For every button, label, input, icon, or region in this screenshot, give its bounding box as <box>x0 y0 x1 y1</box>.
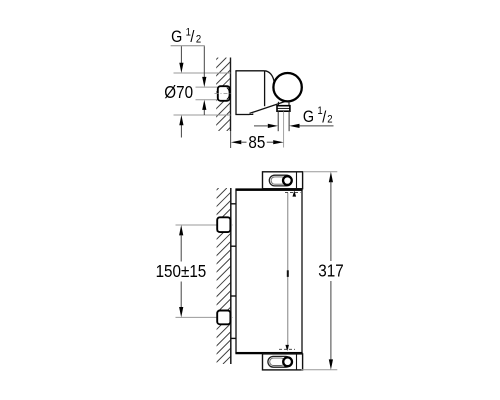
svg-text:G: G <box>171 28 182 46</box>
step under body <box>250 113 253 114</box>
outlet neck <box>277 102 279 106</box>
wall strip tick 2 <box>231 245 236 247</box>
dimension line with arrow (G1/2 leader left, down to Ø70 top ext) <box>179 46 183 73</box>
escutcheon front face <box>235 71 237 115</box>
slanted bottom of holder <box>250 101 288 114</box>
body bottom thick edge <box>235 352 302 354</box>
wall face line (bottom figure) <box>230 188 232 364</box>
bottom block (handle end) <box>263 354 303 370</box>
dimension 150±15 <box>156 225 207 317</box>
top block (handle end) <box>263 172 303 189</box>
inlet nut (top figure) <box>215 86 233 101</box>
svg-text:85: 85 <box>248 133 265 152</box>
body top thick edge <box>235 188 302 190</box>
wall strip tick 3 <box>231 295 236 297</box>
dimension arrow (outlet G1/2 right) with leader to label <box>289 124 333 128</box>
upper union nut <box>217 217 230 232</box>
label G1/2 (top left) <box>171 27 205 47</box>
body top edge <box>235 70 264 72</box>
dimension line with arrow (G1/2 leader, down to nut top) <box>202 46 206 87</box>
extension line (317 top) <box>303 171 337 173</box>
extension line (inlet nut bottom) <box>196 99 218 101</box>
wall strip tick 4 <box>231 337 236 339</box>
svg-text:/: / <box>190 28 195 46</box>
svg-text:2: 2 <box>327 114 333 126</box>
extension line (upper union centre) <box>176 224 218 226</box>
internal centre line with arrows <box>279 191 301 352</box>
dimension arrow (outlet G1/2 left) <box>254 124 278 128</box>
extension line (317 bottom) <box>301 369 337 371</box>
extension line (lower union centre) <box>176 316 218 318</box>
lower union nut <box>217 311 230 325</box>
svg-text:Ø70: Ø70 <box>164 83 193 102</box>
svg-text:2: 2 <box>196 34 202 46</box>
wall face line (top figure) <box>230 58 232 132</box>
holder front edge (vertical divider) <box>264 71 266 106</box>
svg-text:150±15: 150±15 <box>156 262 207 281</box>
dimension 85 <box>231 133 284 152</box>
knob circle <box>273 73 301 101</box>
extension line (escutcheon bottom, Ø70) <box>174 114 231 116</box>
svg-text:/: / <box>322 108 327 126</box>
extension of wall face down to 85 dimension <box>230 131 232 148</box>
extension line (escutcheon top, Ø70) <box>174 72 231 74</box>
outlet nut <box>277 106 290 112</box>
label G1/2 (outlet) <box>303 105 333 126</box>
extension line (inlet nut top) <box>196 86 218 88</box>
fillet curve to knob <box>265 71 275 82</box>
wall strip tick 1 <box>231 203 236 205</box>
body main rectangle <box>236 190 302 352</box>
dimension arrow (nut bottom, pointing up) <box>202 100 206 115</box>
body bottom edge <box>235 114 249 116</box>
svg-text:317: 317 <box>318 262 343 281</box>
dimension arrow (Ø70 bottom, pointing up) <box>179 115 183 138</box>
svg-text:G: G <box>303 108 314 126</box>
dimension 317 <box>318 172 343 370</box>
outlet centre extension line <box>283 111 285 147</box>
outlet pipe lines <box>277 111 279 131</box>
